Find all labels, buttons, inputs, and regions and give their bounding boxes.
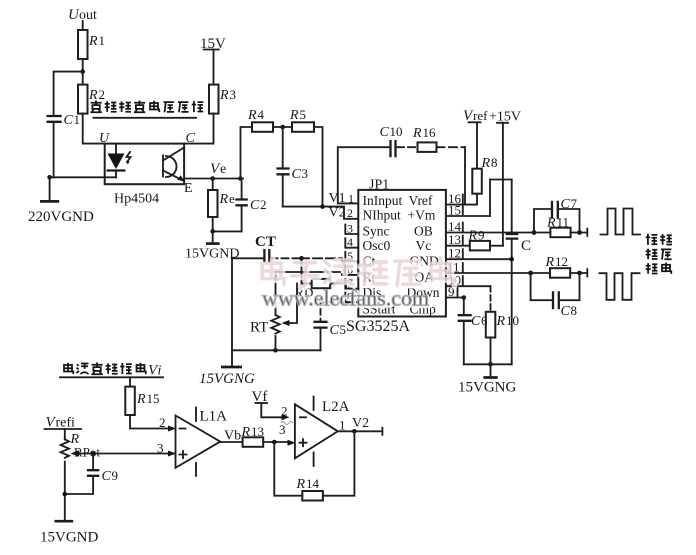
svg-text:9: 9: [478, 228, 485, 243]
resistor R12: [545, 254, 571, 278]
pin 8 stub: [345, 290, 358, 304]
ground 15VGND bottom: [40, 521, 98, 545]
capacitor C1: [47, 112, 81, 128]
wire Uout to R1: [82, 21, 84, 30]
capacitor C10: [380, 124, 403, 157]
wire CT cap to pin5 (dashed): [271, 258, 346, 261]
svg-text:R: R: [545, 255, 555, 270]
svg-text:R: R: [219, 88, 229, 103]
node junction R14 tap: [272, 440, 277, 445]
svg-text:Vref: Vref: [409, 193, 433, 208]
svg-text:2: 2: [347, 206, 353, 220]
opto LED light arrow: [126, 152, 130, 165]
wire pin1 to compensation line: [338, 147, 390, 203]
pin 5 stub: [345, 249, 358, 263]
resistor R9: [468, 228, 491, 251]
resistor R16: [412, 125, 437, 152]
svg-text:R: R: [247, 108, 257, 123]
resistor R2: [78, 85, 105, 114]
svg-text:1: 1: [348, 192, 354, 206]
svg-text:C: C: [380, 125, 390, 140]
pin label NIhput: [363, 207, 401, 222]
wire +15V feed split: [490, 179, 512, 181]
wire R9 to +15V line: [490, 245, 503, 247]
wire L2A output V2: [338, 416, 383, 435]
wire R8 to pin16: [476, 194, 478, 205]
node junction R1-R2: [80, 69, 85, 74]
svg-text:e: e: [220, 162, 226, 177]
resistor R4: [247, 107, 273, 132]
node junction V2 wire: [320, 204, 325, 209]
svg-text:3: 3: [157, 441, 164, 456]
pin 4 stub: [345, 235, 358, 249]
svg-text:R: R: [289, 108, 299, 123]
pin 11 cell: [446, 260, 531, 275]
pin label Down: [407, 285, 440, 300]
svg-text:R: R: [546, 216, 556, 231]
svg-text:R: R: [412, 126, 422, 141]
capacitor C7: [552, 196, 578, 219]
wire pot bottom to ground: [63, 462, 68, 521]
svg-text:15VGNG: 15VGNG: [458, 380, 516, 396]
pin 7 stub: [345, 276, 358, 290]
wire Ve line: [184, 178, 243, 180]
pin label Osc0: [363, 238, 391, 253]
op-amp/PWM IC JP1 SG3525A box: [358, 190, 446, 317]
svg-text:R: R: [296, 477, 306, 492]
wire C8 bracket right: [560, 273, 580, 300]
node V2: [329, 206, 354, 221]
svg-text:R: R: [219, 192, 229, 207]
svg-text:R: R: [496, 314, 506, 329]
wiper arrow RPot: [71, 441, 177, 457]
svg-text:Vc: Vc: [416, 238, 432, 253]
svg-text:Sync: Sync: [363, 223, 390, 238]
svg-text:V2: V2: [352, 416, 369, 431]
svg-text:C: C: [292, 167, 302, 182]
text current sampling signal Vi (Chinese): [60, 363, 163, 379]
svg-text:2: 2: [281, 404, 288, 419]
pin 16 cell: [446, 191, 477, 206]
resistor Re: [208, 179, 235, 218]
ground 220VGND: [28, 177, 94, 225]
svg-text:L2A: L2A: [322, 399, 350, 415]
wire LED cathode to ground rail: [50, 176, 116, 178]
wire pin10 down to R10 (dashed): [490, 286, 492, 312]
node junction ground rail: [488, 362, 493, 367]
power 15V: [200, 36, 226, 52]
pin label Vref: [409, 193, 433, 208]
svg-text:15: 15: [448, 203, 461, 218]
pin 12 cell: [446, 246, 512, 261]
wire Vref down to R8: [476, 122, 478, 168]
svg-text:15: 15: [147, 391, 160, 406]
svg-text:R: R: [468, 229, 478, 244]
svg-text:5: 5: [340, 322, 347, 337]
node junction pin12-GND: [509, 257, 514, 262]
label Hp4504: [114, 192, 159, 207]
capacitor C2: [235, 179, 266, 232]
label SG3525A: [346, 318, 410, 335]
pin label OB: [414, 223, 433, 238]
svg-text:NIhput: NIhput: [363, 207, 401, 222]
watermark remnant squiggle: [279, 422, 293, 438]
svg-text:e: e: [229, 191, 235, 206]
svg-text:1: 1: [99, 33, 106, 48]
wire C bottom to pin12/GND rail: [511, 240, 513, 364]
ground 15VGNG middle: [199, 350, 255, 387]
pin label Dis: [363, 285, 382, 300]
svg-text:12: 12: [448, 246, 461, 261]
wire Rt line to pin6: [276, 272, 346, 275]
svg-text:R: R: [481, 156, 491, 171]
svg-text:5: 5: [300, 107, 307, 122]
node junction RD tap: [299, 256, 304, 261]
wire RD left drop: [302, 258, 312, 283]
svg-text:R: R: [241, 425, 251, 440]
label JP1: [369, 178, 389, 193]
pin label OA: [415, 270, 435, 285]
potentiometer RPot: [61, 432, 101, 460]
wire R11 to output stub: [571, 229, 588, 236]
svg-text:3: 3: [347, 222, 353, 236]
wire junction to C1 branch: [54, 72, 83, 115]
wire 15V to R3: [213, 50, 215, 85]
pin label GND: [410, 254, 439, 269]
text optocoupler isolation voltage feedback (Chinese): [90, 101, 203, 118]
text external drive module (Chinese, 3 rows): [646, 234, 672, 274]
pin label Sync: [363, 223, 390, 238]
wire pin9 branch: [462, 295, 467, 314]
svg-text:220VGND: 220VGND: [28, 209, 94, 225]
resistor R13: [241, 424, 265, 447]
ground 15VGND upper: [185, 231, 239, 261]
resistor R15: [125, 387, 159, 415]
node junction 220V ground: [47, 175, 52, 180]
resistor R3: [209, 85, 236, 114]
svg-text:C: C: [330, 323, 340, 338]
wire R2 to optocoupler anode: [83, 114, 105, 144]
svg-text:C: C: [561, 304, 571, 319]
svg-text:C: C: [102, 469, 112, 484]
svg-text:V2: V2: [329, 206, 346, 221]
wire C5 to bottom rail: [320, 329, 322, 351]
svg-text:E: E: [184, 181, 193, 196]
node junction ground tap: [210, 229, 215, 234]
svg-text:11: 11: [557, 215, 570, 230]
pin 9 cell: [446, 284, 464, 299]
wire OA line to R12: [531, 272, 550, 274]
svg-text:15VGND: 15VGND: [40, 530, 98, 546]
power +15V label: [489, 110, 521, 125]
resistor R10: [486, 312, 519, 338]
opto-coupler U Hp4504 box: [105, 144, 184, 185]
wire R10 to ground rail: [490, 338, 492, 365]
op-amp L2A: [295, 397, 350, 467]
wire C8 bracket left: [531, 273, 552, 300]
wire +15V down: [502, 123, 504, 246]
svg-text:14: 14: [306, 476, 320, 491]
svg-text:10: 10: [390, 124, 403, 139]
svg-text:CT: CT: [255, 234, 276, 250]
opto LED: [107, 144, 126, 178]
wire R13 to L2A non-inverting input: [263, 440, 295, 446]
pin label +Vm: [408, 207, 436, 222]
resistor R14: [296, 476, 323, 501]
svg-text:3: 3: [230, 87, 237, 102]
wire C3 bottom to pin2: [283, 207, 359, 219]
svg-text:InInput: InInput: [363, 193, 403, 208]
svg-text:12: 12: [555, 254, 568, 269]
wiper arrow RT: [282, 284, 298, 327]
pin 6 stub: [345, 262, 358, 276]
svg-text:16: 16: [423, 125, 437, 140]
svg-text:V1: V1: [329, 191, 346, 206]
svg-text:Hp4504: Hp4504: [114, 192, 159, 207]
ground 15VGNG right: [458, 364, 516, 395]
watermark 电子发烧友网: [262, 258, 454, 288]
wire C1 to bottom rail: [53, 123, 55, 177]
power Vref label: [463, 108, 488, 124]
svg-text:8: 8: [571, 303, 578, 318]
svg-text:3: 3: [279, 422, 286, 437]
pin 15 cell: [446, 203, 490, 218]
pin 14 cell: [446, 219, 534, 234]
wire feedback loop: [323, 431, 355, 495]
waveform OB drive: [601, 209, 641, 235]
svg-text:9: 9: [112, 468, 119, 483]
svg-text:3: 3: [302, 166, 309, 181]
resistor RD: [294, 279, 331, 301]
svg-text:10: 10: [506, 313, 519, 328]
wire OB line to R11: [534, 232, 550, 234]
wire bottom rail: [232, 349, 321, 351]
wire C7 bracket left: [534, 209, 551, 233]
svg-text:2: 2: [159, 415, 166, 430]
pin label Vc: [416, 238, 432, 253]
capacitor C6: [458, 313, 488, 329]
svg-text:R: R: [136, 392, 146, 407]
node U label: [99, 131, 110, 146]
wire R5 right down to V2 line: [314, 127, 323, 207]
pin label SStart: [363, 302, 396, 317]
svg-text:13: 13: [251, 424, 264, 439]
node junction RT bottom: [273, 336, 278, 353]
wire ground rail right-bottom: [464, 363, 512, 365]
wire to decoupling capacitor C: [511, 180, 513, 234]
op-amp L1A: [176, 408, 228, 477]
resistor R11: [546, 215, 571, 238]
pin label Ct: [363, 254, 376, 269]
wire left rail to CT cap: [232, 257, 263, 259]
svg-text:C: C: [471, 314, 481, 329]
wire R16 to pin16 line (dashed then corner): [437, 147, 466, 204]
svg-text:JP1: JP1: [369, 178, 389, 193]
node Ve: [210, 161, 226, 177]
svg-text:ref: ref: [473, 108, 488, 123]
svg-text:4: 4: [347, 235, 353, 249]
svg-text:4: 4: [258, 107, 265, 122]
svg-text:L1A: L1A: [200, 409, 228, 425]
svg-text:1: 1: [339, 418, 346, 433]
opto phototransistor: [163, 148, 185, 182]
wire R4 to R5: [273, 126, 292, 128]
capacitor C: [506, 234, 531, 254]
potentiometer RT: [250, 272, 280, 336]
capacitor CT: [264, 249, 269, 263]
svg-text:15VGNG: 15VGNG: [199, 371, 255, 387]
pin label Cmp: [410, 302, 437, 317]
svg-text:RT: RT: [250, 320, 268, 336]
wire Ve to R4: [241, 127, 253, 179]
wire Re,C2 common to ground: [213, 217, 242, 231]
node junction Re tap: [210, 176, 215, 181]
svg-text:C: C: [521, 238, 531, 254]
pin 13 cell: [446, 232, 470, 247]
pin label Rt: [363, 270, 376, 285]
pin 10 cell: [446, 273, 491, 288]
resistor R1: [78, 30, 105, 59]
node junction OB branch: [532, 230, 537, 235]
capacitor C3: [276, 127, 308, 207]
svg-text:2: 2: [260, 197, 267, 212]
capacitor C5: [313, 322, 346, 338]
wire Vi to R15: [129, 377, 131, 386]
watermark www.elecfans.com: [262, 286, 431, 313]
wire C7 bracket right: [559, 209, 580, 233]
wire R12 to output stub: [570, 269, 587, 276]
capacitor C8: [553, 291, 577, 319]
label CT: [255, 234, 276, 250]
svg-text:out: out: [79, 8, 97, 23]
node C label: [186, 131, 196, 146]
node Vf: [252, 389, 268, 405]
svg-text:8: 8: [491, 155, 498, 170]
node junction C2/R4 tap: [238, 176, 243, 181]
node E label: [184, 181, 193, 196]
node V1: [329, 191, 355, 206]
node junction OA branch: [528, 271, 533, 276]
wire Vrefi to pot: [64, 429, 66, 439]
node junction C9 tap: [91, 451, 96, 456]
svg-text:2: 2: [99, 87, 106, 102]
wire C10 to R16 (dashed): [397, 146, 418, 148]
svg-text:Vb: Vb: [224, 429, 241, 444]
wire L1A output Vb: [220, 429, 242, 444]
pin label InInput: [363, 193, 403, 208]
resistor R5: [289, 107, 314, 132]
node Vrefi: [45, 415, 82, 431]
svg-text:Osc0: Osc0: [363, 238, 391, 253]
wire R3 to opto collector: [184, 114, 213, 144]
svg-text:i: i: [158, 364, 162, 379]
wire R14 to input junction: [274, 442, 302, 496]
waveform OA drive: [600, 273, 640, 300]
svg-text:1: 1: [74, 112, 81, 127]
svg-text:+Vm: +Vm: [408, 207, 436, 222]
node junction C8-R12 right: [577, 271, 582, 276]
svg-text:OB: OB: [414, 223, 433, 238]
node junction C7-R11 right: [577, 230, 582, 235]
svg-text:SG3525A: SG3525A: [346, 318, 410, 335]
svg-text:C: C: [64, 113, 74, 128]
wire C6 to ground rail: [463, 322, 465, 364]
capacitor C9: [65, 454, 118, 495]
node junction V2 feedback: [352, 429, 357, 434]
wire R1 to junction: [82, 59, 84, 85]
wire left rail: [231, 258, 233, 350]
wires and components inserted below: [28, 7, 236, 225]
svg-text:C: C: [250, 198, 260, 213]
wire R15 to L1A inverting input: [130, 415, 176, 432]
svg-text:6: 6: [481, 313, 488, 328]
pin 3 stub: [345, 222, 358, 236]
node Uout: [68, 7, 97, 23]
wire to pin15: [489, 180, 491, 217]
wire Vf to L2A inverting input: [261, 403, 289, 420]
node junction R4-R5-C3: [280, 125, 285, 130]
svg-text:www.elecfans.com: www.elecfans.com: [262, 286, 429, 311]
wire RD right to pin7: [330, 284, 358, 289]
resistor R8: [472, 155, 497, 194]
svg-text:R: R: [88, 34, 98, 49]
wire pin8 to C5 (dashed): [321, 302, 359, 320]
